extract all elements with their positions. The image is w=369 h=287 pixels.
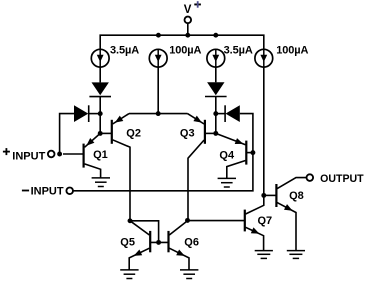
wire mirror tie — [130, 221, 159, 243]
node F I4/Q7/Q8 — [261, 193, 266, 198]
wire node C to D4 — [216, 113, 225, 115]
wire D3 to node A — [89, 113, 100, 115]
svg-text:Q1: Q1 — [93, 149, 108, 161]
ground Q1 — [92, 177, 110, 179]
wire Q6 collector to Q7 base — [188, 220, 245, 222]
node rail-V+ — [185, 33, 190, 38]
node Q5 collector — [128, 218, 133, 223]
wire V+ lead — [187, 23, 189, 35]
node Q6 collector — [185, 218, 190, 223]
output terminal — [307, 174, 314, 181]
node D — [213, 131, 218, 136]
transistor Q4 — [245, 141, 247, 165]
svg-text:Q6: Q6 — [184, 236, 199, 248]
svg-text:Q5: Q5 — [120, 236, 135, 248]
wire node A to node B — [99, 114, 101, 134]
diode D2 — [207, 82, 224, 95]
input terminal - — [66, 188, 73, 195]
wire top supply rail — [100, 35, 264, 49]
diode D3 — [74, 105, 88, 122]
svg-text:100µA: 100µA — [276, 44, 308, 56]
node rail-CS3 — [213, 33, 218, 38]
wire I3 to D2 — [215, 67, 217, 82]
svg-text:INPUT: INPUT — [31, 185, 64, 197]
transistor Q6 — [167, 231, 169, 252]
svg-text:V: V — [184, 4, 192, 16]
current source I4 100uA — [255, 49, 273, 67]
wire +input riser — [60, 114, 74, 154]
node mirror bases — [156, 240, 161, 245]
svg-text:Q4: Q4 — [219, 150, 235, 162]
wire D1 to node A — [99, 97, 101, 114]
wire I4 drop — [263, 67, 265, 195]
current source I2 100uA — [149, 49, 167, 67]
transistor Q3 — [204, 120, 206, 144]
svg-text:Q7: Q7 — [258, 215, 273, 227]
svg-text:3.5µA: 3.5µA — [110, 44, 139, 56]
ground Q8 — [287, 250, 305, 252]
transistor Q1 — [82, 144, 84, 168]
diode D1 — [92, 82, 109, 95]
diode D4 — [224, 105, 226, 122]
power terminal V+ — [185, 17, 192, 24]
wire -input to Q4 base — [73, 153, 253, 191]
node +input — [57, 152, 62, 157]
node A — [98, 111, 103, 116]
node B — [98, 131, 103, 136]
transistor Q5 — [149, 231, 151, 252]
current source I1 3.5uA — [91, 49, 109, 67]
ground Q4 — [218, 177, 236, 179]
svg-text:Q8: Q8 — [289, 190, 304, 202]
node E emitter bus center — [156, 111, 161, 116]
wire node C to node D — [215, 114, 217, 134]
wire emitter bus — [129, 113, 188, 115]
ground Q7 — [255, 250, 273, 252]
svg-text:3.5µA: 3.5µA — [224, 45, 253, 57]
svg-text:INPUT: INPUT — [12, 151, 45, 163]
input terminal + — [48, 151, 55, 158]
svg-text:Q3: Q3 — [180, 128, 195, 140]
wire D2 to node C — [215, 97, 217, 114]
current source I3 3.5uA — [207, 49, 225, 67]
node Q4 base — [250, 150, 255, 155]
node C — [213, 111, 218, 116]
wire I1 to D1 — [99, 67, 101, 82]
transistor Q8 — [275, 184, 277, 207]
svg-text:100µA: 100µA — [169, 44, 201, 56]
ground Q5 — [120, 269, 138, 271]
svg-text:Q2: Q2 — [126, 127, 141, 139]
transistor Q2 — [111, 120, 113, 144]
wire I2 to emitter bus — [157, 67, 159, 114]
wire D4 to Q4 base node — [240, 114, 253, 153]
ground Q6 — [180, 269, 198, 271]
node rail-CS2 — [156, 33, 161, 38]
svg-text:OUTPUT: OUTPUT — [320, 173, 364, 185]
transistor Q7 — [244, 210, 246, 232]
